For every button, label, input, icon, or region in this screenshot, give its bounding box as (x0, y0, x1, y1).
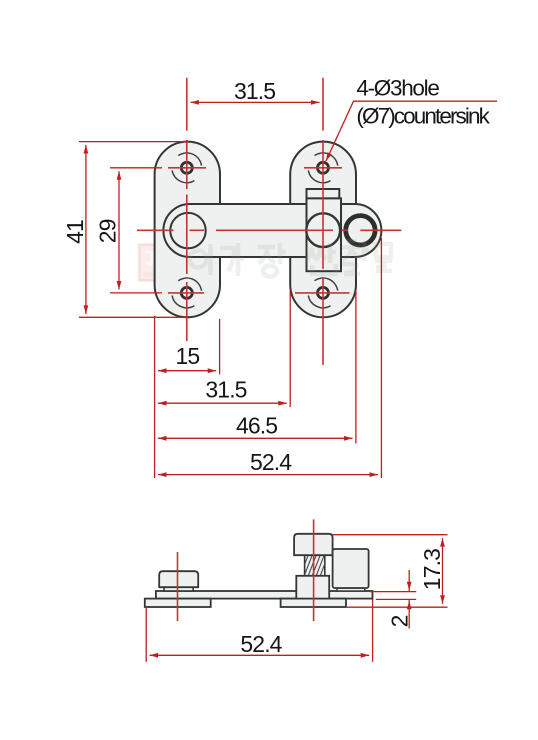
svg-text:41: 41 (62, 220, 88, 244)
svg-text:52.4: 52.4 (240, 631, 282, 657)
svg-text:17.3: 17.3 (419, 549, 445, 590)
svg-text:2: 2 (387, 615, 413, 627)
svg-text:29: 29 (95, 219, 121, 243)
svg-text:(Ø7)countersink: (Ø7)countersink (356, 104, 490, 129)
svg-text:52.4: 52.4 (250, 449, 292, 475)
svg-text:4-Ø3hole: 4-Ø3hole (356, 76, 439, 101)
svg-text:31.5: 31.5 (234, 78, 275, 104)
svg-text:15: 15 (176, 343, 200, 369)
svg-text:31.5: 31.5 (205, 376, 246, 402)
svg-text:46.5: 46.5 (236, 412, 277, 438)
